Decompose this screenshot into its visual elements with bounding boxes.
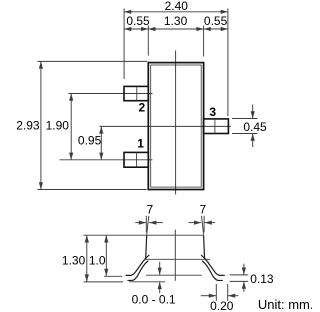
svg-text:1.0: 1.0: [89, 253, 106, 267]
svg-text:0.95: 0.95: [78, 134, 102, 148]
svg-text:0.55: 0.55: [204, 14, 228, 28]
svg-text:1: 1: [137, 137, 144, 151]
svg-text:1.30: 1.30: [164, 14, 188, 28]
svg-text:0.0 - 0.1: 0.0 - 0.1: [132, 293, 176, 307]
svg-text:0.55: 0.55: [126, 14, 150, 28]
svg-text:2: 2: [139, 100, 146, 114]
svg-text:7: 7: [199, 202, 206, 216]
svg-text:3: 3: [209, 105, 216, 119]
svg-text:2.40: 2.40: [165, 0, 189, 13]
svg-text:2.93: 2.93: [16, 119, 40, 133]
svg-text:Unit: mm.: Unit: mm.: [258, 297, 312, 312]
svg-text:0.13: 0.13: [250, 272, 274, 286]
svg-text:7: 7: [147, 202, 154, 216]
svg-text:0.45: 0.45: [243, 120, 267, 134]
svg-text:1.90: 1.90: [46, 119, 70, 133]
svg-text:0.20: 0.20: [210, 299, 234, 312]
svg-text:1.30: 1.30: [62, 253, 86, 267]
